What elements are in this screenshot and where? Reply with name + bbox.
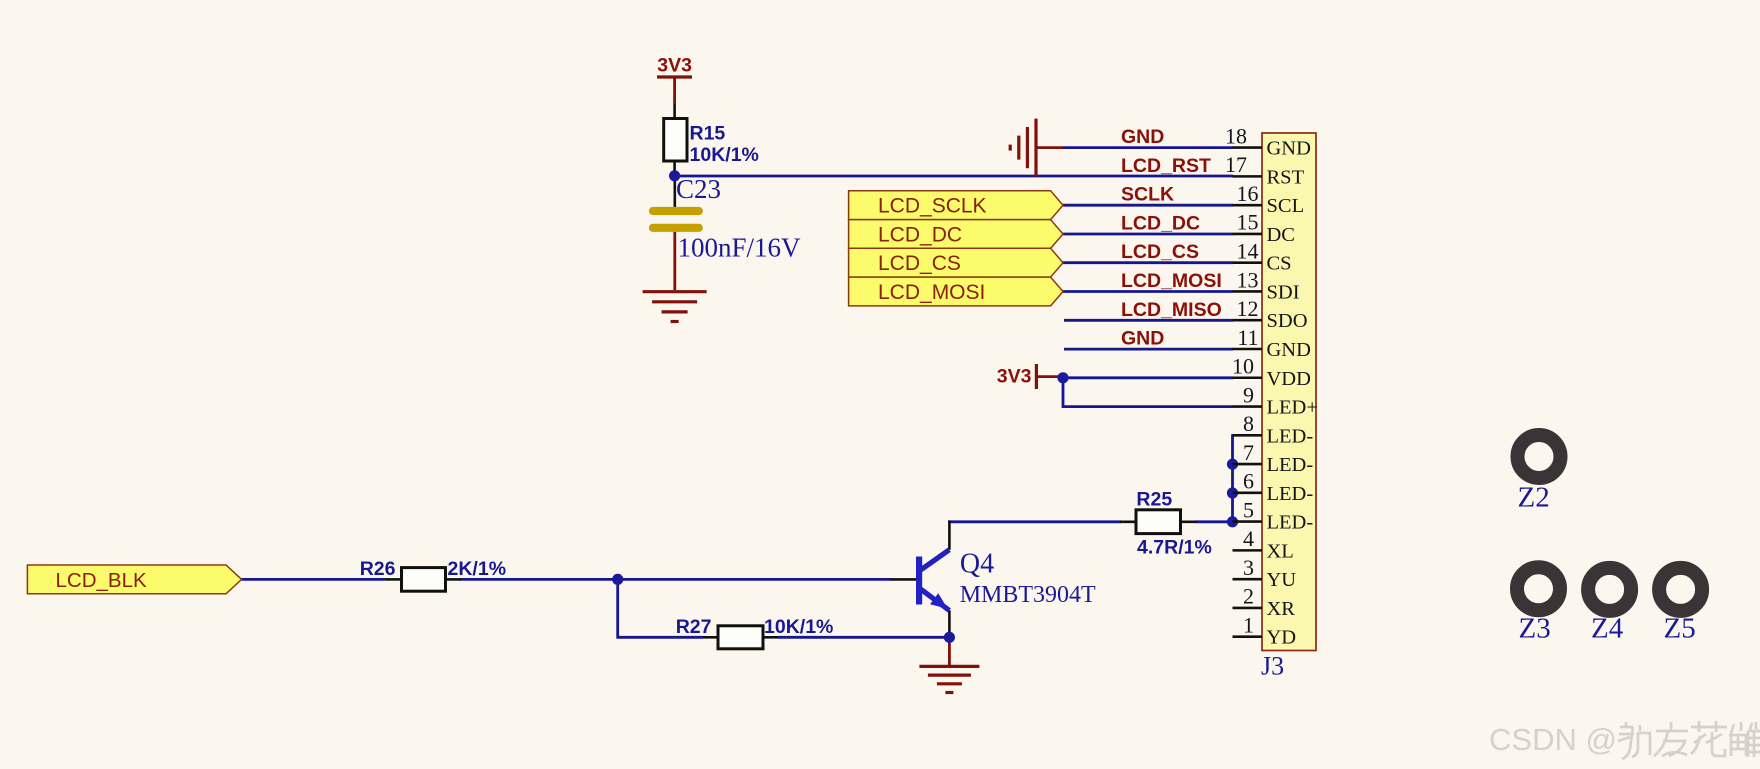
svg-text:GND: GND <box>1121 126 1164 148</box>
svg-text:6: 6 <box>1243 469 1254 494</box>
svg-text:LCD_RST: LCD_RST <box>1121 155 1211 177</box>
svg-text:5: 5 <box>1243 497 1254 522</box>
svg-text:7: 7 <box>1243 440 1254 465</box>
svg-text:4.7R/1%: 4.7R/1% <box>1137 537 1212 559</box>
svg-text:15: 15 <box>1237 210 1259 235</box>
svg-text:SCLK: SCLK <box>1121 184 1174 206</box>
svg-text:YD: YD <box>1267 627 1297 649</box>
svg-text:LCD_CS: LCD_CS <box>878 252 961 275</box>
svg-text:LED-: LED- <box>1267 454 1314 476</box>
svg-text:XL: XL <box>1267 540 1294 562</box>
svg-text:RST: RST <box>1267 166 1305 188</box>
svg-text:CSDN @: CSDN @ <box>1489 722 1617 757</box>
svg-text:VDD: VDD <box>1267 368 1311 390</box>
svg-text:LCD_CS: LCD_CS <box>1121 241 1199 263</box>
svg-text:C23: C23 <box>676 174 721 204</box>
svg-text:LCD_MISO: LCD_MISO <box>1121 299 1222 321</box>
svg-text:GND: GND <box>1267 339 1311 361</box>
svg-text:LCD_DC: LCD_DC <box>1121 213 1200 235</box>
svg-text:14: 14 <box>1237 238 1259 263</box>
svg-text:LED-: LED- <box>1267 425 1314 447</box>
svg-text:Z2: Z2 <box>1518 482 1550 514</box>
svg-text:J3: J3 <box>1261 652 1284 681</box>
svg-text:100nF/16V: 100nF/16V <box>678 233 802 263</box>
svg-text:2K/1%: 2K/1% <box>448 558 507 580</box>
svg-text:LCD_DC: LCD_DC <box>878 224 962 247</box>
svg-text:3V3: 3V3 <box>997 366 1032 388</box>
svg-text:11: 11 <box>1237 325 1258 350</box>
svg-text:R26: R26 <box>360 558 396 580</box>
svg-text:YU: YU <box>1267 569 1297 591</box>
svg-text:LED+: LED+ <box>1267 397 1318 419</box>
svg-text:10K/1%: 10K/1% <box>764 616 833 638</box>
svg-text:13: 13 <box>1237 267 1259 292</box>
svg-text:18: 18 <box>1225 123 1247 148</box>
svg-text:4: 4 <box>1243 526 1254 551</box>
svg-text:1: 1 <box>1243 612 1254 637</box>
svg-text:CS: CS <box>1267 253 1292 275</box>
svg-text:Z3: Z3 <box>1519 612 1551 644</box>
svg-text:LED-: LED- <box>1267 512 1314 534</box>
svg-text:3V3: 3V3 <box>657 55 692 77</box>
svg-text:LED-: LED- <box>1267 483 1314 505</box>
svg-text:Z5: Z5 <box>1664 612 1696 644</box>
svg-text:Z4: Z4 <box>1591 612 1624 644</box>
svg-text:16: 16 <box>1237 181 1259 206</box>
svg-text:10K/1%: 10K/1% <box>690 144 759 166</box>
svg-text:9: 9 <box>1243 382 1254 407</box>
svg-text:12: 12 <box>1237 296 1259 321</box>
svg-text:SDI: SDI <box>1267 281 1300 303</box>
svg-text:Q4: Q4 <box>960 548 994 579</box>
svg-text:R27: R27 <box>676 616 712 638</box>
svg-text:17: 17 <box>1225 152 1247 177</box>
svg-text:LCD_MOSI: LCD_MOSI <box>878 281 985 304</box>
svg-text:3: 3 <box>1243 555 1254 580</box>
svg-text:SCL: SCL <box>1267 195 1305 217</box>
svg-text:8: 8 <box>1243 411 1254 436</box>
svg-text:GND: GND <box>1121 328 1164 350</box>
svg-text:10: 10 <box>1232 354 1254 379</box>
svg-text:DC: DC <box>1267 224 1295 246</box>
svg-text:LCD_MOSI: LCD_MOSI <box>1121 270 1222 292</box>
svg-text:R15: R15 <box>690 123 726 145</box>
svg-text:GND: GND <box>1267 138 1311 160</box>
svg-text:LCD_SCLK: LCD_SCLK <box>878 195 987 218</box>
svg-text:LCD_BLK: LCD_BLK <box>56 569 147 592</box>
svg-text:SDO: SDO <box>1267 310 1308 332</box>
svg-text:2: 2 <box>1243 584 1254 609</box>
svg-text:R25: R25 <box>1136 488 1172 510</box>
svg-text:XR: XR <box>1267 598 1296 620</box>
svg-text:MMBT3904T: MMBT3904T <box>960 582 1096 608</box>
